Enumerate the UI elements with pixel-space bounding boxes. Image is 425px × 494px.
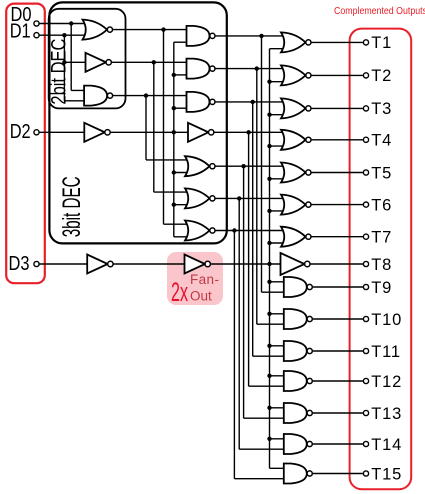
wire c2 row: [111, 61, 188, 63]
wire D3 input: [39, 263, 89, 265]
NOR gate A7 (3bit DEC): [185, 221, 215, 241]
NAND gate T15: [284, 464, 313, 484]
wire D2' into NAND2: [174, 74, 188, 76]
svg-text:T3: T3: [371, 100, 392, 118]
svg-text:D3: D3: [9, 253, 30, 275]
inverter A4 (3bit DEC): [188, 123, 214, 142]
wire T13 output: [313, 412, 364, 414]
junction D2' branch: [172, 73, 176, 77]
terminal T6: [363, 202, 368, 207]
svg-text:T4: T4: [371, 132, 392, 150]
wire fan-out into NAND T14: [270, 438, 289, 440]
svg-text:T11: T11: [371, 343, 401, 361]
NAND gate A1 (3bit DEC): [187, 26, 216, 46]
junction fan-out: [267, 344, 271, 348]
junction D2' branch: [172, 106, 176, 110]
svg-text:T1: T1: [371, 34, 392, 52]
junction A5 drop: [241, 164, 245, 168]
inverter D2: [84, 123, 110, 142]
NAND gate T14: [284, 434, 313, 454]
wire T3 output: [310, 107, 363, 109]
svg-text:T12: T12: [371, 373, 402, 391]
svg-text:2bit DEC: 2bit DEC: [48, 39, 71, 105]
svg-text:T7: T7: [371, 229, 392, 247]
wire A4 output row: [214, 131, 287, 133]
wire D2' into NAND3: [174, 107, 188, 109]
svg-text:Out: Out: [190, 289, 212, 304]
wire D1 to 2bit inverter: [64, 61, 87, 63]
wire T7 output: [310, 236, 363, 238]
NOR gate 2bit DEC (D0,D1): [83, 20, 113, 40]
wire D2 input: [39, 131, 86, 133]
wire c2 vertical: [153, 62, 155, 192]
terminal D3: [34, 261, 39, 266]
input group red box: [6, 4, 45, 284]
junction D1 tap: [62, 33, 66, 37]
wire fan-out into NAND T11: [270, 345, 289, 347]
wire A2 output row: [214, 68, 287, 70]
wire into 2bit NAND top: [71, 89, 88, 91]
wire A5 vertical: [243, 166, 245, 418]
junction fan-out: [267, 144, 271, 148]
NAND gate T9: [284, 277, 313, 297]
wire c1 row: [112, 29, 188, 31]
wire A4 into NAND T12: [249, 385, 289, 387]
NAND gate 2bit DEC (D0,D1): [84, 86, 113, 106]
wire D1 down: [63, 35, 65, 101]
wire A3 vertical: [252, 102, 254, 356]
NAND gate T12: [284, 371, 313, 391]
wire D3' to fan-out buffer: [113, 263, 186, 265]
junction D2' tap: [172, 130, 176, 134]
svg-text:T13: T13: [371, 405, 402, 423]
NAND gate T10: [284, 309, 313, 329]
svg-text:D2: D2: [10, 121, 31, 143]
NOR gate T7: [281, 227, 311, 247]
wire fan-out into NOR T6: [270, 210, 288, 212]
2x Fan-Out highlight box: [167, 252, 223, 305]
svg-text:T8: T8: [371, 256, 392, 274]
NOR gate T5: [281, 163, 311, 183]
NOR gate T2: [281, 65, 311, 85]
svg-text:T10: T10: [371, 311, 402, 329]
svg-text:Fan-: Fan-: [190, 272, 219, 287]
svg-text:T2: T2: [371, 67, 392, 85]
junction D2' branch: [172, 203, 176, 207]
wire T11 output: [313, 350, 364, 352]
terminal T10: [363, 316, 368, 321]
wire A5 into NAND T13: [244, 417, 289, 419]
terminal D2: [34, 130, 39, 135]
junction fan-out main row: [267, 262, 271, 266]
terminal T8: [363, 261, 368, 266]
junction A4 drop: [246, 130, 250, 134]
wire c3 into NOR: [146, 159, 191, 161]
terminal D1: [34, 33, 39, 38]
terminal T5: [363, 170, 368, 175]
wire A2 into NAND T10: [257, 323, 289, 325]
wire c1 into NOR: [164, 223, 191, 225]
wire fan-out into NOR T1: [270, 48, 288, 50]
NOR gate T6: [281, 195, 311, 215]
junction D2' branch: [172, 170, 176, 174]
wire T1 output: [310, 41, 363, 43]
svg-text:T15: T15: [371, 465, 402, 483]
junction fan-out: [267, 177, 271, 181]
junction A7 drop: [232, 228, 236, 232]
wire D2' into NOR5: [174, 172, 191, 174]
NAND gate T13: [284, 403, 313, 423]
wire c3 row: [112, 95, 188, 97]
wire A1 vertical: [261, 36, 263, 292]
wire A1 into NAND T9: [262, 291, 289, 293]
wire T9 output: [313, 286, 364, 288]
terminal T7: [363, 234, 368, 239]
output group red box: [350, 29, 412, 490]
junction fan-out: [267, 241, 271, 245]
NAND gate A3 (3bit DEC): [187, 92, 216, 112]
wire A5 output row: [214, 165, 287, 167]
NAND gate T11: [284, 341, 313, 361]
terminal T4: [363, 137, 368, 142]
wire fan-out output: [210, 263, 285, 265]
svg-text:T5: T5: [371, 164, 392, 182]
wire A3 output row: [214, 101, 287, 103]
terminal T15: [363, 471, 368, 476]
junction A1 drop: [259, 34, 263, 38]
svg-text:Complemented Outputs: Complemented Outputs: [334, 5, 425, 17]
wire fan-out into NOR T3: [270, 114, 288, 116]
terminal T12: [363, 378, 368, 383]
svg-text:T6: T6: [371, 196, 392, 214]
wire T2 output: [310, 74, 363, 76]
wire T14 output: [313, 443, 364, 445]
wire fan-out into NAND T15: [270, 467, 289, 469]
wire A7 into NAND T15: [234, 478, 288, 480]
terminal T9: [363, 284, 368, 289]
2bit DEC box: [49, 9, 126, 109]
inverter D3: [87, 255, 113, 274]
inverter 2bit DEC (D1): [86, 53, 112, 72]
wire to T8 terminal: [308, 263, 363, 265]
wire T5 output: [310, 172, 363, 174]
wire D2' into NOR6: [174, 204, 191, 206]
junction c3 drop: [144, 93, 148, 97]
wire A6 into NAND T14: [239, 448, 288, 450]
terminal T13: [363, 410, 368, 415]
wire A1 output row: [214, 35, 287, 37]
NOR gate T4: [281, 130, 311, 150]
junction A3 drop: [251, 100, 255, 104]
junction fan-out: [267, 209, 271, 213]
junction A6 drop: [237, 196, 241, 200]
junction D0 tap: [69, 21, 73, 25]
inverter 2x fan-out buffer: [185, 255, 211, 274]
wire A7 output row: [214, 230, 287, 232]
terminal D0: [34, 21, 39, 26]
wire fan-out into NAND T13: [270, 407, 289, 409]
wire fan-out into NAND T9: [270, 281, 289, 283]
junction A2 drop: [255, 66, 259, 70]
wire T6 output: [310, 204, 363, 206]
junction fan-out: [267, 406, 271, 410]
wire D0 input: [39, 23, 93, 25]
NOR gate T3: [281, 98, 311, 118]
wire T12 output: [313, 380, 364, 382]
junction fan-out: [267, 280, 271, 284]
wire A3 into NAND T11: [253, 355, 289, 357]
svg-text:T9: T9: [371, 279, 392, 297]
wire c2 into NOR: [154, 191, 191, 193]
junction fan-out: [267, 113, 271, 117]
junction fan-out: [267, 374, 271, 378]
wire A6 output row: [214, 197, 287, 199]
terminal T11: [363, 348, 368, 353]
wire D2' into NAND1: [174, 41, 188, 43]
junction fan-out: [267, 312, 271, 316]
wire A2 vertical: [256, 69, 258, 325]
wire fan-out into NOR T7: [270, 242, 288, 244]
NAND gate A2 (3bit DEC): [187, 59, 216, 79]
wire D2' row: [110, 131, 188, 133]
terminal T3: [363, 106, 368, 111]
wire A6 vertical: [238, 198, 240, 449]
wire fan-out into NOR T4: [270, 145, 288, 147]
wire D2' into NOR7: [174, 236, 191, 238]
svg-text:2x: 2x: [171, 277, 188, 307]
wire D0 down to NAND: [70, 24, 72, 91]
junction fan-out: [267, 437, 271, 441]
wire into 2bit NAND bottom: [64, 100, 88, 102]
wire D2' vertical: [173, 42, 175, 237]
wire D1 input: [39, 34, 93, 36]
junction fan-out: [267, 80, 271, 84]
wire T15 output: [313, 473, 364, 475]
svg-text:3bit DEC: 3bit DEC: [58, 176, 86, 237]
wire T4 output: [310, 139, 363, 141]
3bit DEC box: [49, 2, 226, 243]
junction c1 drop: [161, 27, 165, 31]
wire A7 vertical: [233, 231, 235, 479]
junction D1 to inverter: [62, 60, 66, 64]
svg-text:T14: T14: [371, 436, 402, 454]
junction c2 drop: [152, 60, 156, 64]
wire fan-out vertical: [269, 49, 271, 469]
wire c3 vertical: [145, 96, 147, 160]
wire T10 output: [313, 318, 364, 320]
wire c1 vertical: [163, 30, 165, 225]
inverter T8: [281, 253, 311, 275]
NOR gate T1: [281, 32, 311, 52]
wire A4 vertical: [248, 132, 250, 386]
wire fan-out into NAND T12: [270, 375, 289, 377]
wire fan-out into NAND T10: [270, 313, 289, 315]
wire fan-out into NOR T5: [270, 178, 288, 180]
terminal T1: [363, 40, 368, 45]
NOR gate A6 (3bit DEC): [185, 188, 215, 208]
terminal T2: [363, 73, 368, 78]
terminal T14: [363, 441, 368, 446]
wire fan-out into NOR T2: [270, 81, 288, 83]
svg-text:D1: D1: [10, 21, 31, 43]
NOR gate A5 (3bit DEC): [185, 156, 215, 176]
